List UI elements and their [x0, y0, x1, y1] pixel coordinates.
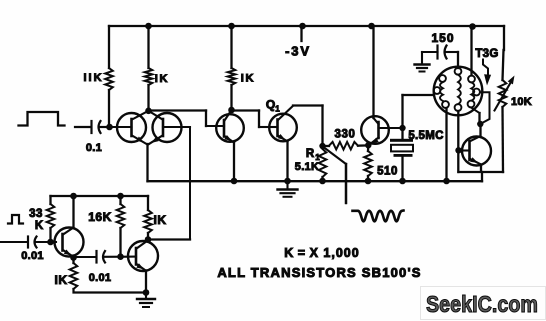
- transistor Q1 emitter: [278, 134, 288, 142]
- transistor Q3 base lead to crystal node: [379, 127, 403, 129]
- transistor Q4 emitter: [470, 157, 482, 171]
- transistor Q2 base bar: [223, 120, 226, 137]
- transformer T1 center winding: [458, 75, 461, 105]
- transistor Q2 collector: [225, 110, 232, 121]
- transistor Q6 emitter: [149, 136, 163, 145]
- wire crystal top lead: [401, 128, 403, 139]
- transformer T1 pin bottom-right: [468, 101, 475, 108]
- svg-text:0.01: 0.01: [89, 272, 112, 284]
- label 0.1: [86, 142, 102, 154]
- wire emitter bottom line: [459, 171, 504, 173]
- node rail dot at oscillator collector: [368, 23, 375, 30]
- svg-text:IIK: IIK: [83, 72, 103, 84]
- label T3G: [475, 48, 498, 60]
- node F crystal node dot: [399, 125, 405, 131]
- svg-text:5.1K: 5.1K: [295, 161, 319, 173]
- svg-text:IK: IK: [154, 213, 167, 227]
- svg-text:330: 330: [335, 129, 356, 141]
- svg-text:IK: IK: [155, 73, 170, 85]
- svg-text:R: R: [306, 148, 315, 160]
- transistor Q6 circle (right of pair): [153, 113, 182, 142]
- transistor Q3 collector wire from rail: [374, 26, 379, 124]
- input pulse waveform symbol (upper): [19, 112, 65, 126]
- wire R1 bottom lead: [321, 177, 323, 181]
- wire node C to Q1 base: [232, 111, 271, 128]
- wire 16K leads: [119, 196, 121, 257]
- node T3G bottom-left rail dot: [443, 178, 450, 185]
- node rail junction above 11K corner: [108, 26, 110, 68]
- wire T3G bottom-center pin to Q4 base node: [457, 111, 459, 150]
- label 1K first: [155, 73, 170, 85]
- node R1 bottom rail dot: [319, 178, 326, 185]
- transistor Q1 base lead: [270, 126, 278, 128]
- transistor Q1 circle: [269, 114, 297, 142]
- transistor Q8 collector: [137, 240, 148, 249]
- node J Q7 emitter dot: [70, 254, 77, 261]
- wire R10 leads: [147, 196, 149, 240]
- transistor Q8 emitter: [136, 263, 146, 271]
- svg-text:-3V: -3V: [285, 44, 311, 59]
- resistor R5 510 zigzag: [364, 151, 372, 176]
- watermark SeekIC.com: [426, 291, 538, 317]
- svg-text:1: 1: [275, 105, 280, 114]
- svg-text:33: 33: [29, 208, 43, 220]
- resistor 10K arrow: [495, 76, 515, 111]
- transformer T1 pin top-right: [468, 76, 475, 83]
- wire R3 bottom lead: [230, 85, 232, 110]
- transistor Q7 circle: [55, 228, 84, 257]
- label 0.01 input: [21, 250, 44, 262]
- label 0.01 coupling: [89, 272, 112, 284]
- node Q8 emitter ground dot: [143, 289, 150, 296]
- label 5.5MC: [408, 130, 443, 142]
- wire 330 left lead: [323, 145, 330, 147]
- node lower rail dot at T5 collector: [70, 193, 77, 200]
- label 330: [335, 129, 356, 141]
- label -3V: [285, 44, 311, 59]
- transistor Q4 base lead: [458, 149, 470, 151]
- transistor Q6 collector: [149, 111, 163, 120]
- wire C4 to Q8 base node: [105, 256, 137, 258]
- node A base node dot (11K/C1/base): [106, 124, 113, 131]
- transistor Q3 circle: [361, 116, 389, 144]
- svg-text:K = X 1,000: K = X 1,000: [284, 246, 359, 260]
- transformer T1 pin bottom-left: [442, 101, 449, 108]
- node G Q4 base dot: [455, 147, 461, 153]
- wire 10K bottom lead: [501, 107, 504, 172]
- label 150: [431, 31, 454, 45]
- node rail dot at 1K (second): [228, 23, 235, 30]
- node lower rail dot at 16K: [117, 193, 124, 200]
- svg-text:T3G: T3G: [475, 48, 498, 60]
- resistor R1 5.1K zigzag: [319, 149, 327, 177]
- label 16K: [88, 210, 112, 224]
- label K: [35, 220, 44, 232]
- svg-text:IK: IK: [241, 73, 256, 85]
- wire Q1 emitter to ground: [286, 141, 288, 181]
- output sawtooth waveform symbol: [353, 211, 404, 222]
- node Q2 emitter rail dot: [231, 178, 238, 185]
- wire C3 to base node: [36, 241, 56, 243]
- svg-text:SeekIC.com: SeekIC.com: [426, 291, 538, 317]
- input pulse waveform symbol (lower): [8, 215, 23, 224]
- wire Q6 base to right then down: [163, 127, 190, 240]
- resistor 11K zigzag: [105, 68, 113, 90]
- svg-text:Q: Q: [266, 98, 275, 112]
- transformer T1 can circle: [434, 67, 483, 116]
- wire Q7 emitter to C4: [74, 256, 97, 258]
- label ALL TRANSISTORS: [217, 265, 421, 280]
- svg-text:ALL TRANSISTORS SB100'S: ALL TRANSISTORS SB100'S: [217, 265, 421, 280]
- transistor Q3 emitter: [370, 138, 379, 145]
- resistor R2 1K lead from rail: [147, 26, 149, 68]
- node H Q4 collector dot: [477, 121, 483, 127]
- ground symbol lower circuit: [137, 293, 155, 308]
- svg-text:K: K: [35, 220, 44, 232]
- watermark frame: [421, 287, 546, 320]
- svg-text:150: 150: [431, 31, 454, 45]
- resistor R6 10K zigzag: [499, 80, 507, 107]
- resistor R9 16K zigzag: [117, 204, 125, 228]
- transistor Q5 base bar: [130, 119, 133, 136]
- label 5.1K: [295, 161, 319, 173]
- transistor Q8 circle: [128, 241, 158, 271]
- transformer T1 pin top-left: [439, 75, 446, 82]
- transistor Q7 collector: [63, 196, 74, 235]
- transistor Q4 collector: [470, 124, 481, 142]
- transformer T1 pin bottom-center: [455, 104, 462, 111]
- wire R2 bottom lead: [147, 85, 149, 111]
- wire T3G bottom-left pin to rail: [445, 108, 447, 181]
- node crystal bottom rail dot: [399, 178, 406, 185]
- transistor Q4 base bar: [468, 141, 471, 160]
- transformer T1 right winding: [471, 82, 474, 100]
- capacitor C2 150 plates: [438, 46, 447, 59]
- wire rail rise to emitter line: [481, 172, 483, 181]
- capacitor C3 0.01 plates: [28, 237, 37, 248]
- crystal Y1 top plate: [390, 139, 413, 142]
- node L Q8 collector dot: [145, 236, 152, 243]
- transistor Q6 base bar: [162, 119, 165, 136]
- wire R3 top lead: [230, 26, 232, 68]
- transistor Q5 emitter: [132, 136, 147, 145]
- node rail dot -3V tick: [299, 23, 306, 41]
- wire node B to Q2 base staircase: [149, 111, 225, 127]
- wire -3V supply rail (top bus): [109, 25, 504, 27]
- label R1: [306, 148, 320, 162]
- crystal Y1 body rect: [391, 145, 413, 152]
- T3G tuning slug arrow: [483, 60, 491, 86]
- node D R1 top dot: [319, 143, 325, 149]
- transistor Q3 base bar: [377, 122, 380, 138]
- wire 33K leads: [49, 196, 51, 242]
- transistor Q1 base bar: [276, 120, 279, 137]
- label Q1: [266, 98, 280, 114]
- label K = X 1000: [284, 246, 359, 260]
- wire R8 leads: [74, 258, 147, 293]
- wire lower supply rail: [51, 195, 149, 197]
- wire crystal node up to T3G left pin: [403, 95, 434, 128]
- node B collectors node dot: [145, 108, 152, 115]
- svg-text:510: 510: [377, 166, 398, 178]
- wire T3G bottom-right pin to collector node: [471, 108, 480, 125]
- resistor R8 1K (lower) zigzag: [70, 263, 78, 289]
- wire 330 right lead: [358, 144, 368, 147]
- node 510 bottom rail dot: [365, 178, 372, 185]
- wire R1 wiper arm diagonal: [324, 148, 346, 204]
- wire main bottom rail: [148, 180, 483, 182]
- wire 11K bottom lead: [108, 90, 110, 127]
- transistor Q7 emitter: [63, 250, 74, 257]
- wire C1 to base node: [100, 126, 110, 128]
- wire crystal bottom lead: [401, 157, 403, 181]
- label 11K: [83, 72, 103, 84]
- transistor Q4 circle: [462, 137, 491, 166]
- resistor R10 1K (third) zigzag: [144, 210, 152, 233]
- wire Q4 base node down to emitter line: [457, 154, 459, 173]
- wire T3G mid-right pin to collector node: [480, 92, 490, 123]
- label 1K third: [154, 213, 167, 227]
- capacitor C4 0.01 plates: [97, 251, 106, 263]
- wire lower input to C3: [0, 241, 28, 243]
- wire input to capacitor C1: [75, 126, 91, 128]
- transistor Q8 base bar: [135, 248, 138, 265]
- wire Q1 collector to R1 top: [293, 106, 323, 147]
- resistor R3 1K zigzag: [228, 68, 236, 85]
- wire wiper down stub: [345, 164, 347, 203]
- resistor R4 330 zigzag: [329, 142, 358, 150]
- transistor Q5 collector: [132, 111, 149, 120]
- transistor Q1 collector: [278, 106, 293, 120]
- wire C2 right to T3G top pin: [446, 52, 458, 68]
- node E emitter dot (330/510/Q3): [365, 142, 371, 148]
- transistor Q2 circle: [216, 114, 244, 142]
- label 1K lower: [55, 273, 68, 287]
- svg-text:10K: 10K: [511, 96, 532, 108]
- wire Q2 emitter down: [233, 142, 235, 181]
- wire emitters down to ground rail: [146, 144, 148, 181]
- resistor R7 33K zigzag: [47, 204, 55, 228]
- node rail dot at 1K (first): [145, 23, 152, 30]
- transistor Q7 base bar: [61, 234, 64, 251]
- label 1K second: [241, 73, 256, 85]
- svg-text:IK: IK: [55, 273, 68, 287]
- label 510: [377, 166, 398, 178]
- label 33: [29, 208, 43, 220]
- svg-text:16K: 16K: [88, 210, 112, 224]
- transformer T1 pin mid-right: [473, 89, 480, 96]
- transistor Q5 base lead: [110, 126, 132, 128]
- ground symbol under Q1: [278, 181, 298, 197]
- wire Q8 emitter down: [145, 271, 147, 293]
- wire T3G top-right pin to rail: [470, 26, 472, 76]
- resistor R2 1K zigzag: [145, 68, 153, 85]
- wire Q8 collector to upper flip-flop: [148, 238, 190, 240]
- node Q1 emitter rail dot: [284, 178, 291, 185]
- transformer T1 pin top-center: [455, 68, 462, 75]
- capacitor C1 0.1 plates: [92, 121, 101, 133]
- wire rail right corner down to 10K: [503, 26, 505, 80]
- ground symbol at C2: [415, 52, 430, 72]
- node I lower base node dot: [47, 239, 54, 246]
- crystal Y1 bottom plate: [394, 154, 413, 157]
- transistor Q2 emitter: [224, 135, 234, 143]
- label 10K: [511, 96, 532, 108]
- transistor Q5 circle (left of pair): [117, 113, 146, 142]
- wire 510 leads: [367, 145, 370, 181]
- svg-text:0.01: 0.01: [21, 250, 44, 262]
- node rail dot at T3G top pin: [469, 23, 476, 30]
- svg-text:5.5MC: 5.5MC: [408, 130, 443, 142]
- transformer T1 pin mid-left: [434, 87, 441, 94]
- node K Q8 base node dot: [117, 253, 124, 260]
- svg-text:0.1: 0.1: [86, 142, 102, 154]
- node C Q2 collector dot: [228, 107, 235, 114]
- transformer T1 left winding: [440, 82, 443, 101]
- wire C2 left to ground: [422, 51, 438, 53]
